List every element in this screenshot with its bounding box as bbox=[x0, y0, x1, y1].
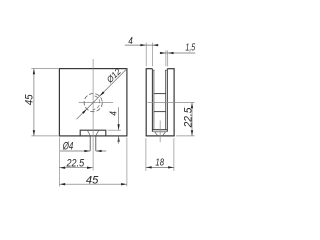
right 22.5 arrow down bbox=[191, 130, 193, 136]
front 4 dimension line above slot bbox=[118, 107, 120, 130]
d4 dimension line bbox=[60, 150, 106, 152]
side view countersink top line bbox=[153, 131, 167, 133]
right 22.5 extension bottom bbox=[176, 135, 194, 137]
side view hole bottom edge bbox=[154, 111, 166, 113]
side view left gasket line bbox=[153, 70, 155, 130]
bottom slot of front view bbox=[80, 130, 106, 136]
22.5 dimension line bbox=[59, 167, 92, 169]
front 4 arrow up to bottom edge bbox=[117, 136, 119, 142]
side view left prong top edge bbox=[146, 68, 153, 70]
d4 arrow left pointing right bbox=[84, 150, 90, 152]
countersink head profile in slot bbox=[88, 131, 99, 136]
side view outer right wall bbox=[173, 69, 175, 136]
right 22.5 arrow up bbox=[191, 103, 193, 109]
d4 arrow right pointing left bbox=[96, 150, 102, 152]
18 arrow right bbox=[168, 166, 174, 168]
screw shank hidden lines below slot bbox=[90, 136, 96, 151]
diagonal dimension leader for d12 bbox=[77, 69, 127, 120]
extension of left edge downward bbox=[58, 137, 60, 186]
svg-text:22.5: 22.5 bbox=[66, 158, 85, 170]
left 45 dimension line bbox=[33, 69, 35, 136]
45 bottom arrow right bbox=[121, 183, 127, 185]
svg-text:4: 4 bbox=[128, 36, 133, 47]
left 45 extension line bottom bbox=[31, 135, 58, 137]
svg-text:1,5: 1,5 bbox=[185, 43, 195, 54]
18 dimension line bbox=[146, 166, 174, 168]
side view right gasket cap bbox=[165, 69, 167, 71]
front 4 lower tail bbox=[118, 136, 120, 143]
18 arrow left bbox=[146, 166, 152, 168]
svg-text:45: 45 bbox=[86, 174, 98, 186]
1.5 arrow pointing left bbox=[168, 52, 174, 54]
18 extension lines bbox=[146, 138, 174, 171]
extension of right edge downward bbox=[126, 137, 128, 186]
side view right prong top edge bbox=[167, 68, 174, 70]
22.5 arrow left bbox=[60, 167, 66, 169]
arrowhead upper-right of d12 bbox=[100, 91, 105, 96]
side view bottom edge bbox=[146, 135, 175, 137]
front view square body outline bbox=[59, 69, 127, 136]
left 45 extension line top bbox=[31, 68, 58, 70]
svg-text:18: 18 bbox=[155, 158, 164, 169]
left 45 arrow up bbox=[33, 69, 35, 75]
side view slot bottom bbox=[152, 129, 167, 131]
side view countersink slants bbox=[155, 132, 165, 136]
side view right slot face bbox=[166, 69, 168, 132]
side view left gasket cap bbox=[152, 69, 154, 71]
1.5 extension lines bbox=[166, 50, 168, 66]
svg-text:45: 45 bbox=[24, 94, 36, 105]
4 top arrow pointing left bbox=[153, 44, 159, 46]
side view right gasket line bbox=[165, 70, 167, 130]
side view hole centerline bbox=[148, 102, 195, 104]
front 4 arrow down to slot top bbox=[117, 124, 119, 130]
1.5 arrow pointing right bbox=[160, 52, 166, 54]
4 top extension lines bbox=[146, 43, 152, 67]
45 bottom dimension line bbox=[59, 183, 127, 185]
4 top dimension line bbox=[125, 44, 156, 46]
svg-text:4: 4 bbox=[109, 111, 120, 116]
svg-text:22.5: 22.5 bbox=[182, 107, 194, 129]
22.5 arrow right bbox=[87, 167, 93, 169]
side view outer left wall bbox=[145, 69, 147, 136]
right 22.5 dimension line bbox=[191, 103, 193, 136]
1.5 dimension line bbox=[160, 52, 196, 54]
45 bottom arrow left bbox=[60, 183, 66, 185]
left 45 arrow down bbox=[33, 130, 35, 136]
horizontal centerline of circle bbox=[79, 102, 113, 104]
dashed circle hole d12 bbox=[84, 94, 102, 112]
vertical centerline of front view bbox=[92, 59, 94, 170]
side view hole top edge bbox=[154, 93, 166, 95]
side view left slot face bbox=[151, 69, 153, 132]
arrowhead lower-left of d12 bbox=[82, 109, 87, 114]
svg-text:Ø4: Ø4 bbox=[62, 141, 73, 153]
front 4 extension line at slot top bbox=[108, 129, 121, 131]
4 top arrow pointing right bbox=[140, 44, 146, 46]
side view screw centerline bbox=[159, 121, 161, 143]
inner thread arc of hole bbox=[93, 96, 100, 110]
